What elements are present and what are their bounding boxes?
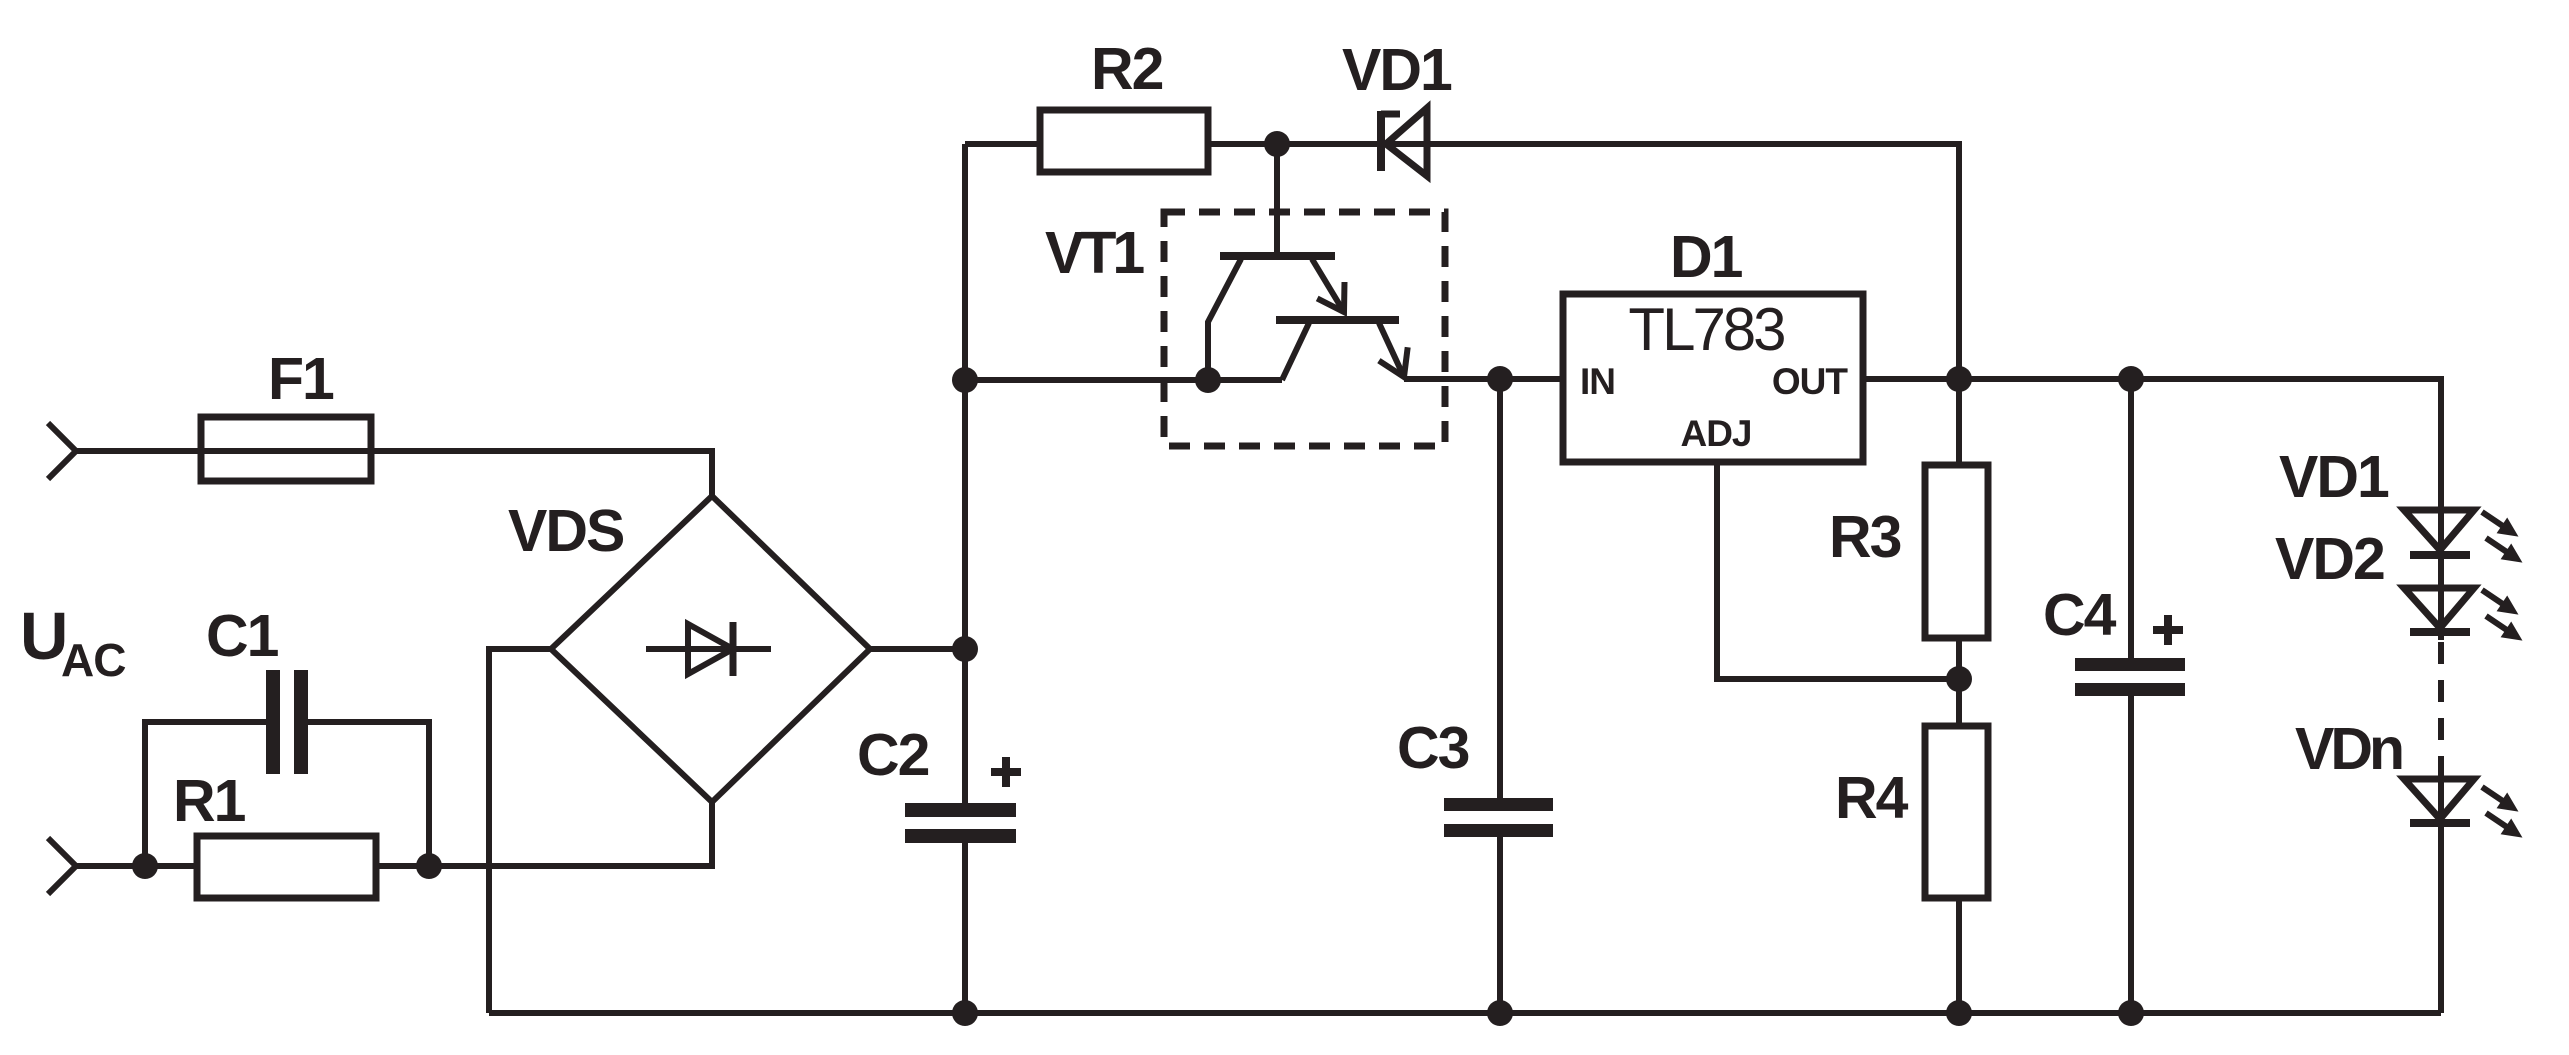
bridge diode symbol	[646, 622, 771, 676]
node R1 right junction	[416, 853, 442, 879]
zener diode VD1	[1381, 108, 1427, 176]
transistor VT1b collector	[1282, 323, 1309, 380]
svg-text:C4: C4	[2043, 582, 2117, 648]
wire emitter to D1 IN	[1404, 376, 1563, 382]
wire AC line 1 to bridge	[76, 451, 712, 496]
polarity plus C2	[991, 757, 1021, 787]
node R4 bottom	[1946, 1000, 1972, 1026]
polarity plus C4	[2153, 615, 2183, 645]
transistor VT1b base bar	[1276, 316, 1399, 324]
resistor R1	[197, 836, 376, 898]
node C2 bottom	[952, 1000, 978, 1026]
wire VT1 base lead	[1274, 144, 1280, 252]
svg-text:OUT: OUT	[1772, 361, 1849, 402]
wire R1 to bridge bottom corner	[376, 802, 712, 866]
wire R2 to top right corner	[1208, 144, 1959, 379]
svg-text:R4: R4	[1835, 765, 1909, 831]
input terminal AC line 2	[48, 838, 76, 894]
transistor VT1a base bar	[1220, 252, 1335, 260]
LED emission arrows VD2	[2477, 582, 2528, 648]
resistor R2	[1040, 110, 1208, 172]
wire C4 bottom lead	[2128, 696, 2134, 1013]
wire VDn segment	[2438, 774, 2444, 1013]
node C4 bottom	[2118, 1000, 2144, 1026]
wire C4 top lead	[2128, 379, 2134, 658]
wire C3 top lead	[1497, 379, 1503, 798]
wire C3 bottom lead	[1497, 837, 1503, 1013]
label UAC	[20, 599, 125, 686]
wire ADJ lead	[1717, 462, 1959, 679]
svg-text:VD1: VD1	[2279, 444, 2389, 510]
fuse F1	[201, 417, 371, 481]
capacitor C4	[2075, 658, 2185, 696]
svg-text:R3: R3	[1829, 504, 1901, 570]
resistor R4	[1925, 726, 1988, 898]
node VT1a collector junction	[1195, 367, 1221, 393]
transistor VT1b emitter	[1379, 323, 1408, 377]
wire C2 to bottom rail	[962, 843, 968, 1013]
svg-text:U: U	[20, 599, 66, 674]
svg-text:VD1: VD1	[1342, 37, 1452, 103]
svg-text:D1: D1	[1670, 224, 1743, 290]
svg-text:C2: C2	[857, 722, 929, 788]
wire C1 left lead	[145, 722, 266, 866]
transistor VT1a emitter	[1312, 259, 1345, 312]
svg-text:ADJ: ADJ	[1680, 413, 1751, 454]
node C3 bottom	[1487, 1000, 1513, 1026]
bridge rectifier VDS	[551, 496, 870, 802]
svg-text:C3: C3	[1397, 715, 1469, 781]
svg-text:R2: R2	[1091, 36, 1163, 102]
capacitor C1	[266, 670, 308, 774]
svg-text:AC: AC	[61, 634, 125, 686]
svg-text:IN: IN	[1580, 361, 1615, 402]
svg-text:F1: F1	[268, 346, 334, 412]
svg-text:C1: C1	[206, 603, 279, 669]
node R2 VD1 base junction	[1264, 131, 1290, 157]
resistor R3	[1925, 465, 1988, 638]
input terminal AC line 1	[48, 423, 76, 479]
dashed enclosure VT1	[1164, 212, 1445, 446]
svg-text:R1: R1	[173, 768, 246, 834]
node OUT R3 junction	[1946, 366, 1972, 392]
dashed wire LED string	[2438, 642, 2444, 774]
LED emission arrows VD1	[2477, 504, 2528, 570]
wire bottom rail	[489, 1010, 2441, 1016]
wire AC line 2 to R1	[76, 863, 197, 869]
wire bridge right corner to rail	[870, 646, 965, 652]
wire C1 right lead	[308, 722, 429, 866]
wire OUT rail	[1863, 379, 2441, 640]
node IN C3 junction	[1487, 366, 1513, 392]
capacitor C3	[1444, 798, 1553, 837]
wire positive rail vertical	[962, 144, 968, 803]
wire R3 top lead	[1956, 379, 1962, 465]
LED VDn	[2404, 779, 2474, 823]
node rail VT1 wire junction	[952, 367, 978, 393]
wire R3 to R4	[1956, 638, 1962, 726]
node bridge output junction	[952, 636, 978, 662]
node input junction	[132, 853, 158, 879]
capacitor C2	[905, 803, 1016, 843]
node C4 top junction	[2118, 366, 2144, 392]
wire bridge left corner to bottom rail	[489, 649, 551, 1013]
node ADJ junction	[1946, 666, 1972, 692]
transistor VT1a collector	[1208, 259, 1241, 380]
svg-text:VD2: VD2	[2275, 526, 2384, 592]
svg-text:VDS: VDS	[508, 498, 624, 564]
svg-text:VDn: VDn	[2295, 716, 2402, 782]
wire VT1 collector rail	[965, 377, 1282, 383]
wire R4 bottom lead	[1956, 898, 1962, 1013]
wire rail to R2	[965, 141, 1040, 147]
regulator D1 TL783 box	[1563, 294, 1863, 462]
svg-text:VT1: VT1	[1045, 220, 1144, 286]
svg-text:TL783: TL783	[1628, 296, 1784, 363]
LED VD1	[2404, 510, 2474, 555]
LED VD2	[2404, 588, 2474, 632]
LED emission arrows VDn	[2477, 779, 2528, 845]
